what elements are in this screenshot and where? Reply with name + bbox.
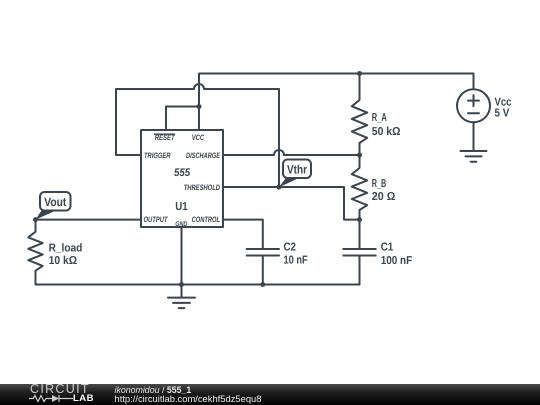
flag Vthr [279, 160, 311, 188]
svg-text:C1: C1 [381, 241, 394, 253]
wire reset: RESET pin up then right to VCC rail [166, 107, 199, 131]
svg-text:OUTPUT: OUTPUT [144, 215, 169, 224]
wire vcc rail: VCC pin up, across top to voltage source [199, 74, 474, 131]
wire threshold: THRESHOLD pin right, down, right to R_B bottom junction [223, 187, 360, 220]
RESET pin overline [155, 133, 175, 135]
wire bottom rail [36, 284, 360, 286]
voltage source Vcc V1 [457, 89, 490, 151]
node: R_A/R_B discharge junction [357, 153, 362, 158]
capacitor C1 [343, 220, 375, 285]
svg-text:TRIGGER: TRIGGER [144, 151, 171, 160]
footer bar [0, 384, 540, 405]
wire control: CONTROL pin right then down to C2 [223, 220, 263, 249]
svg-text:100 nF: 100 nF [381, 255, 413, 267]
ground (below Vcc source) [461, 151, 487, 162]
svg-text:C2: C2 [284, 242, 297, 254]
svg-text:Vthr: Vthr [287, 163, 307, 177]
logo CIRCUIT [30, 383, 90, 396]
svg-text:THRESHOLD: THRESHOLD [184, 183, 221, 192]
node: gnd junction on bottom rail [179, 282, 184, 287]
junction node dots [33, 71, 362, 287]
node: Vthr threshold node [277, 185, 282, 190]
resistor R_B [352, 155, 367, 220]
svg-text:20 Ω: 20 Ω [372, 191, 396, 203]
node: reset/vcc junction [197, 104, 202, 109]
capacitor C2 [247, 249, 279, 285]
node: R_B bottom / C1 top junction [357, 217, 362, 222]
svg-text:VCC: VCC [192, 133, 205, 142]
logo LAB [73, 394, 94, 404]
footer url [115, 394, 262, 403]
ground (main, below 555 GND) [168, 285, 195, 309]
resistor R_load [28, 220, 42, 285]
footer title [115, 386, 192, 395]
node: Vout output node [33, 217, 38, 222]
svg-text:Vout: Vout [44, 195, 66, 209]
svg-text:CONTROL: CONTROL [192, 215, 221, 224]
op-amp box: 555 timer U1 body [141, 130, 223, 227]
svg-text:DISCHARGE: DISCHARGE [186, 151, 221, 160]
wire gnd pin: GND pin down to bottom rail [181, 227, 183, 285]
svg-text:RESET: RESET [155, 133, 176, 142]
svg-text:R_B: R_B [372, 178, 387, 190]
resistor R_A [352, 74, 367, 156]
svg-text:GND: GND [175, 221, 187, 228]
svg-text:10 nF: 10 nF [284, 255, 308, 267]
wire output: OUTPUT pin left to Vout node [36, 219, 142, 221]
svg-text:10 kΩ: 10 kΩ [49, 255, 77, 267]
logo squiggle (resistor + diode symbol) [29, 394, 75, 403]
component value labels [49, 97, 512, 268]
svg-text:555: 555 [174, 167, 191, 179]
wire trigger loop: TRIGGER pin left, up, across (hop over VCC rail), down to THRESHOLD node [116, 84, 279, 187]
node: R_A top junction [357, 71, 362, 76]
svg-text:5 V: 5 V [495, 108, 510, 120]
svg-text:R_A: R_A [372, 112, 387, 124]
wire discharge: DISCHARGE pin right (hop over trigger drop) to R_A/R_B junction [223, 150, 360, 155]
svg-text:R_load: R_load [49, 242, 83, 254]
node: C2 bottom junction [260, 282, 265, 287]
flag Vout [36, 192, 71, 220]
svg-text:U1: U1 [175, 201, 188, 213]
svg-text:50 kΩ: 50 kΩ [372, 126, 401, 138]
555 pin labels [144, 133, 221, 228]
